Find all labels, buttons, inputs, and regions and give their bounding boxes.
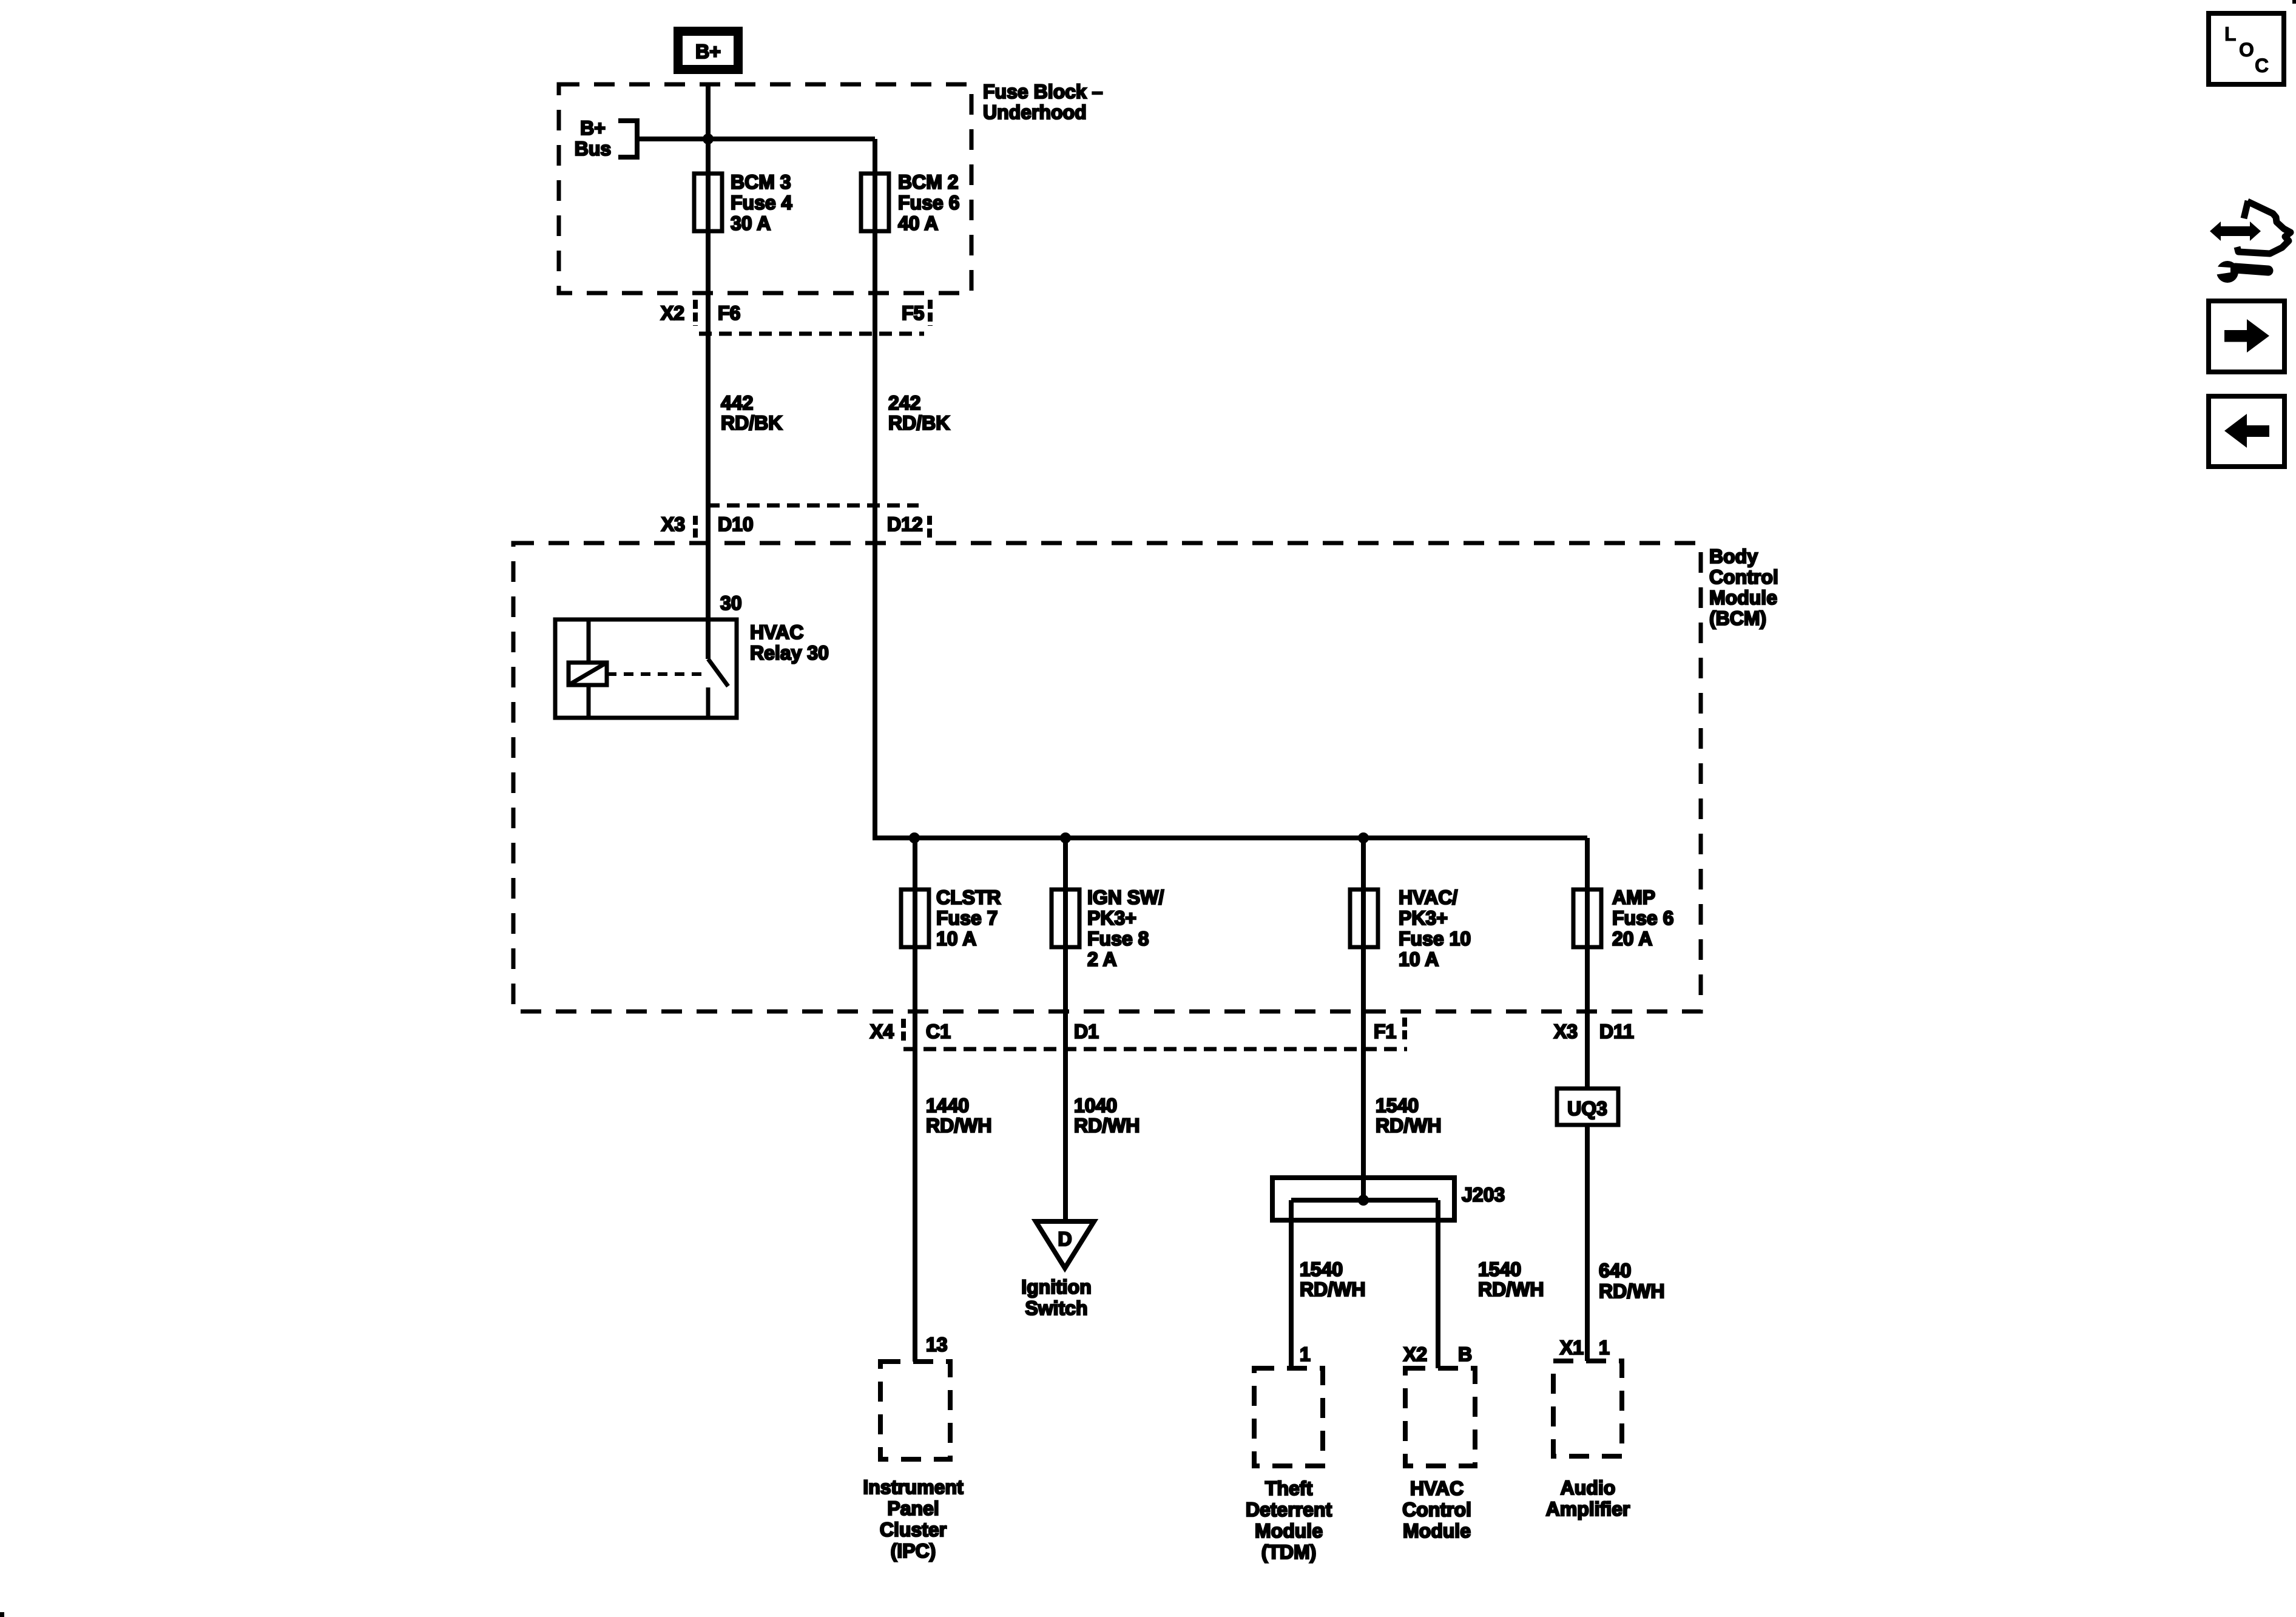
svg-text:RD/WH: RD/WH xyxy=(1074,1115,1140,1136)
svg-text:F6: F6 xyxy=(718,302,740,324)
svg-text:Bus: Bus xyxy=(575,138,611,160)
svg-text:RD/WH: RD/WH xyxy=(1599,1280,1664,1302)
svg-text:Module: Module xyxy=(1403,1520,1471,1542)
svg-text:Control: Control xyxy=(1709,566,1778,588)
svg-text:Cluster: Cluster xyxy=(880,1519,947,1541)
svg-text:Fuse 6: Fuse 6 xyxy=(1612,907,1673,929)
svg-text:O: O xyxy=(2239,39,2254,61)
svg-text:Relay 30: Relay 30 xyxy=(750,642,829,664)
svg-text:2 A: 2 A xyxy=(1087,948,1117,970)
svg-text:RD/WH: RD/WH xyxy=(1376,1115,1441,1136)
svg-text:Ignition: Ignition xyxy=(1021,1276,1092,1298)
svg-text:X3: X3 xyxy=(1554,1021,1578,1042)
svg-text:HVAC: HVAC xyxy=(1410,1477,1464,1499)
svg-text:Module: Module xyxy=(1255,1520,1323,1542)
svg-text:(BCM): (BCM) xyxy=(1709,607,1766,629)
svg-text:Fuse Block –: Fuse Block – xyxy=(983,81,1102,103)
svg-text:RD/WH: RD/WH xyxy=(1300,1278,1365,1300)
svg-text:1540: 1540 xyxy=(1376,1095,1419,1116)
svg-text:Amplifier: Amplifier xyxy=(1546,1498,1630,1520)
svg-text:242: 242 xyxy=(888,392,920,414)
svg-text:1440: 1440 xyxy=(926,1095,969,1116)
svg-text:10 A: 10 A xyxy=(1399,948,1439,970)
svg-text:HVAC/: HVAC/ xyxy=(1399,886,1457,908)
svg-text:F5: F5 xyxy=(902,302,924,324)
svg-text:D11: D11 xyxy=(1599,1021,1634,1042)
svg-text:D: D xyxy=(1058,1228,1072,1250)
svg-text:Theft: Theft xyxy=(1265,1477,1313,1499)
svg-text:HVAC: HVAC xyxy=(750,621,803,643)
svg-text:Fuse 4: Fuse 4 xyxy=(731,192,792,214)
svg-text:Audio: Audio xyxy=(1561,1477,1616,1499)
svg-text:Body: Body xyxy=(1709,545,1758,567)
svg-text:UQ3: UQ3 xyxy=(1567,1098,1607,1119)
svg-text:1: 1 xyxy=(1599,1337,1610,1359)
svg-text:Fuse 8: Fuse 8 xyxy=(1087,928,1149,950)
svg-text:13: 13 xyxy=(926,1334,948,1355)
svg-text:X4: X4 xyxy=(870,1021,894,1042)
svg-text:Underhood: Underhood xyxy=(983,101,1087,123)
svg-text:C1: C1 xyxy=(926,1021,951,1042)
svg-text:B: B xyxy=(1458,1343,1472,1365)
svg-text:Fuse 7: Fuse 7 xyxy=(936,907,998,929)
svg-text:30: 30 xyxy=(720,592,742,614)
svg-text:1540: 1540 xyxy=(1300,1258,1343,1280)
svg-text:AMP: AMP xyxy=(1612,886,1655,908)
svg-text:X2: X2 xyxy=(1403,1343,1427,1365)
svg-text:B+: B+ xyxy=(580,117,606,139)
svg-text:D1: D1 xyxy=(1074,1021,1099,1042)
svg-text:BCM 2: BCM 2 xyxy=(898,171,959,193)
svg-text:Module: Module xyxy=(1709,587,1777,609)
svg-text:RD/WH: RD/WH xyxy=(926,1115,991,1136)
svg-text:X2: X2 xyxy=(661,302,684,324)
svg-text:X3: X3 xyxy=(661,513,685,535)
svg-text:C: C xyxy=(2255,55,2269,76)
svg-text:PK3+: PK3+ xyxy=(1087,907,1136,929)
svg-text:(TDM): (TDM) xyxy=(1261,1541,1317,1563)
svg-text:X1: X1 xyxy=(1560,1337,1584,1359)
svg-text:442: 442 xyxy=(721,392,753,414)
svg-text:Instrument: Instrument xyxy=(863,1476,964,1498)
svg-text:D12: D12 xyxy=(887,513,923,535)
svg-text:RD/BK: RD/BK xyxy=(721,412,782,434)
svg-text:RD/BK: RD/BK xyxy=(888,412,950,434)
svg-text:RD/WH: RD/WH xyxy=(1478,1278,1544,1300)
svg-text:F1: F1 xyxy=(1374,1021,1396,1042)
svg-text:J203: J203 xyxy=(1462,1184,1505,1206)
svg-text:IGN SW/: IGN SW/ xyxy=(1087,886,1164,908)
svg-text:20 A: 20 A xyxy=(1612,928,1652,950)
svg-text:D10: D10 xyxy=(718,513,754,535)
svg-text:B+: B+ xyxy=(695,41,721,62)
svg-text:Deterrent: Deterrent xyxy=(1246,1499,1332,1521)
svg-text:CLSTR: CLSTR xyxy=(936,886,1001,908)
svg-text:Panel: Panel xyxy=(887,1497,939,1519)
svg-text:BCM 3: BCM 3 xyxy=(731,171,791,193)
svg-text:10 A: 10 A xyxy=(936,928,976,950)
svg-text:1540: 1540 xyxy=(1478,1258,1521,1280)
svg-text:(IPC): (IPC) xyxy=(891,1540,936,1562)
svg-text:Control: Control xyxy=(1402,1499,1471,1521)
svg-text:Switch: Switch xyxy=(1025,1297,1087,1319)
svg-text:640: 640 xyxy=(1599,1260,1631,1281)
svg-text:1040: 1040 xyxy=(1074,1095,1117,1116)
svg-text:40 A: 40 A xyxy=(898,212,938,234)
svg-text:1: 1 xyxy=(1300,1343,1311,1365)
svg-text:PK3+: PK3+ xyxy=(1399,907,1448,929)
svg-text:Fuse 6: Fuse 6 xyxy=(898,192,959,214)
svg-text:30 A: 30 A xyxy=(731,212,771,234)
svg-text:Fuse 10: Fuse 10 xyxy=(1399,928,1471,950)
svg-text:L: L xyxy=(2224,23,2237,45)
